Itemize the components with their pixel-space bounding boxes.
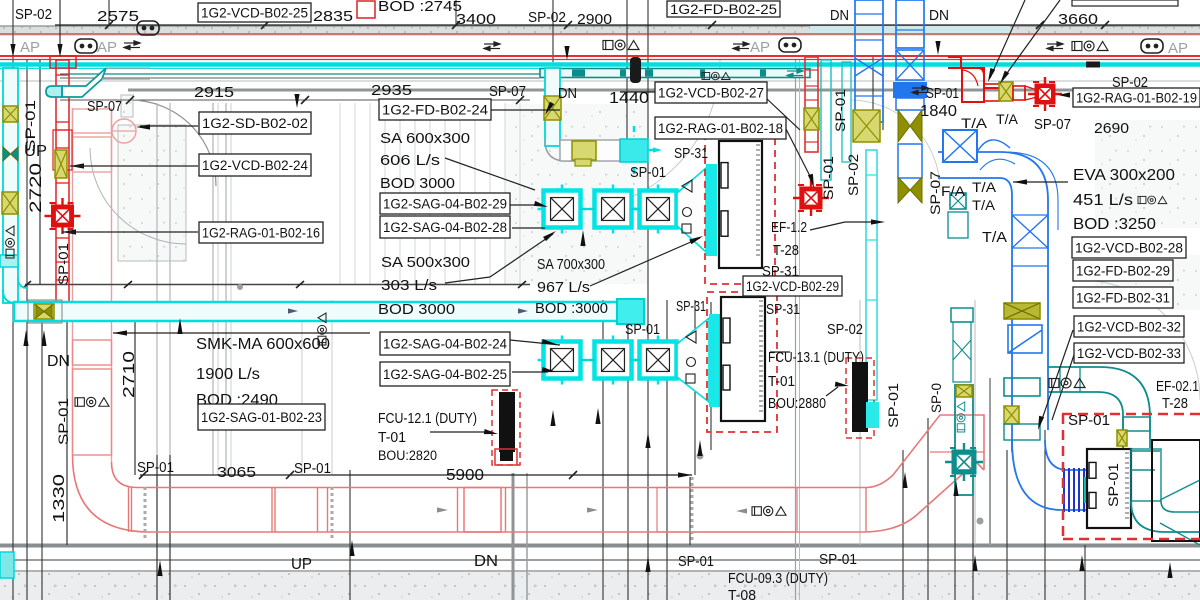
svg-text:451 L/s: 451 L/s — [1073, 192, 1133, 209]
svg-text:DN: DN — [47, 353, 70, 370]
svg-text:SP-01: SP-01 — [886, 383, 901, 428]
svg-text:T/A: T/A — [972, 198, 995, 213]
svg-text:SP-0: SP-0 — [929, 383, 944, 413]
svg-text:1330: 1330 — [51, 474, 68, 523]
svg-text:DN: DN — [929, 8, 949, 24]
svg-text:SP-01: SP-01 — [678, 553, 714, 570]
svg-text:DN: DN — [558, 86, 577, 102]
svg-text:SP-01: SP-01 — [819, 551, 857, 568]
svg-text:SP-01: SP-01 — [630, 165, 666, 181]
svg-text:T/A: T/A — [996, 112, 1018, 127]
svg-text:SA 700x300: SA 700x300 — [537, 257, 605, 273]
svg-text:T-08: T-08 — [728, 588, 756, 600]
svg-text:2835: 2835 — [313, 8, 353, 25]
svg-text:606 L/s: 606 L/s — [380, 153, 440, 169]
svg-text:SP-01: SP-01 — [294, 461, 331, 477]
svg-text:1G2-VCD-B02-32: 1G2-VCD-B02-32 — [1077, 319, 1181, 334]
svg-text:1G2-SAG-01-B02-23: 1G2-SAG-01-B02-23 — [201, 410, 322, 425]
svg-text:EVA 300x200: EVA 300x200 — [1073, 167, 1175, 184]
svg-text:SP-31: SP-31 — [766, 302, 800, 318]
svg-text:1G2-FD-B02-29: 1G2-FD-B02-29 — [1076, 263, 1170, 278]
svg-text:SA 500x300: SA 500x300 — [381, 255, 470, 271]
svg-text:1G2-VCD-B02-33: 1G2-VCD-B02-33 — [1077, 346, 1181, 361]
svg-text:2935: 2935 — [371, 82, 412, 99]
svg-text:FCU-12.1 (DUTY): FCU-12.1 (DUTY) — [378, 411, 477, 427]
svg-text:1G2-FD-B02-25: 1G2-FD-B02-25 — [670, 2, 777, 17]
svg-text:SP-07: SP-07 — [87, 99, 122, 115]
svg-text:SP-01: SP-01 — [56, 398, 71, 445]
svg-text:1G2-RAG-01-B02-16: 1G2-RAG-01-B02-16 — [202, 225, 320, 240]
svg-text:T-28: T-28 — [773, 243, 799, 259]
svg-text:1G2-FD-B02-24: 1G2-FD-B02-24 — [382, 102, 489, 117]
svg-text:SP-31: SP-31 — [676, 299, 706, 315]
svg-text:DN: DN — [474, 553, 498, 570]
svg-text:BOU:2820: BOU:2820 — [378, 448, 437, 463]
svg-text:EF-02.1: EF-02.1 — [1156, 379, 1199, 395]
svg-text:BOU:2880: BOU:2880 — [768, 396, 826, 412]
svg-text:2575: 2575 — [97, 8, 139, 25]
svg-text:1G2-SAG-04-B02-29: 1G2-SAG-04-B02-29 — [383, 196, 507, 211]
svg-text:SP-01: SP-01 — [23, 100, 38, 152]
svg-text:AP: AP — [1168, 40, 1188, 57]
svg-text:SP-01: SP-01 — [137, 460, 174, 476]
svg-text:DN: DN — [830, 8, 849, 24]
svg-text:AP: AP — [750, 39, 770, 56]
svg-text:T/A: T/A — [972, 180, 996, 195]
svg-text:1G2-VCD-B02-29: 1G2-VCD-B02-29 — [746, 279, 839, 294]
svg-text:FCU-13.1 (DUTY): FCU-13.1 (DUTY) — [768, 350, 864, 366]
svg-text:SP-01: SP-01 — [56, 243, 71, 285]
svg-text:1G2-SAG-04-B02-28: 1G2-SAG-04-B02-28 — [383, 220, 507, 235]
svg-text:1G2-VCD-B02-28: 1G2-VCD-B02-28 — [1075, 240, 1183, 255]
svg-text:BOD :3000: BOD :3000 — [535, 301, 608, 317]
svg-text:3660: 3660 — [1058, 11, 1098, 28]
svg-text:SP-01: SP-01 — [833, 89, 848, 132]
svg-text:1G2-SAG-04-B02-25: 1G2-SAG-04-B02-25 — [383, 367, 507, 382]
svg-text:SP-01: SP-01 — [821, 156, 836, 200]
svg-text:SP-02: SP-02 — [15, 7, 52, 23]
svg-text:F/A: F/A — [941, 184, 965, 199]
svg-text:3065: 3065 — [217, 464, 256, 481]
svg-text:AP: AP — [97, 39, 117, 56]
svg-text:SP-01: SP-01 — [926, 86, 959, 102]
svg-text:1840: 1840 — [920, 103, 957, 120]
svg-text:967 L/s: 967 L/s — [537, 280, 590, 296]
svg-text:FCU-09.3 (DUTY): FCU-09.3 (DUTY) — [728, 571, 828, 587]
svg-text:3400: 3400 — [456, 11, 496, 28]
svg-text:1G2-SAG-04-B02-24: 1G2-SAG-04-B02-24 — [383, 336, 507, 351]
svg-text:SP-31: SP-31 — [674, 146, 708, 162]
svg-text:BOD :2745: BOD :2745 — [378, 0, 462, 15]
svg-text:SP-02: SP-02 — [528, 10, 566, 26]
svg-text:AP: AP — [20, 39, 40, 56]
svg-text:BOD :3250: BOD :3250 — [1073, 216, 1156, 233]
svg-text:BOD 3000: BOD 3000 — [378, 302, 455, 318]
svg-text:UP: UP — [291, 556, 312, 573]
svg-text:1440: 1440 — [609, 90, 649, 107]
svg-text:2900: 2900 — [577, 11, 612, 28]
svg-text:1G2-VCD-B02-27: 1G2-VCD-B02-27 — [658, 85, 764, 100]
svg-text:2720: 2720 — [27, 163, 45, 213]
svg-text:2710: 2710 — [121, 351, 138, 398]
svg-text:303 L/s: 303 L/s — [381, 278, 437, 294]
svg-text:1G2-FD-B02-31: 1G2-FD-B02-31 — [1076, 290, 1170, 305]
svg-text:1G2-RAG-01-B02-18: 1G2-RAG-01-B02-18 — [658, 121, 783, 136]
svg-text:T-28: T-28 — [1162, 396, 1188, 412]
svg-text:SMK-MA 600x600: SMK-MA 600x600 — [196, 336, 330, 353]
svg-text:SP-02: SP-02 — [846, 154, 861, 196]
svg-text:T-01: T-01 — [768, 374, 795, 390]
svg-text:2915: 2915 — [194, 84, 234, 101]
svg-text:SP-01: SP-01 — [1105, 463, 1121, 507]
svg-text:SP-07: SP-07 — [1034, 117, 1071, 133]
svg-text:T-01: T-01 — [378, 430, 406, 446]
svg-text:SP-01: SP-01 — [625, 322, 660, 338]
svg-text:BOD 3000: BOD 3000 — [380, 176, 455, 192]
svg-text:2690: 2690 — [1094, 120, 1129, 137]
svg-text:SP-07: SP-07 — [489, 84, 526, 100]
svg-text:EF-1.2: EF-1.2 — [771, 220, 807, 236]
svg-text:T/A: T/A — [961, 116, 987, 131]
svg-text:SP-07: SP-07 — [928, 171, 943, 215]
svg-text:1G2-RAG-01-B02-19: 1G2-RAG-01-B02-19 — [1076, 90, 1197, 105]
svg-text:1G2-SD-B02-02: 1G2-SD-B02-02 — [202, 116, 308, 131]
svg-text:1900 L/s: 1900 L/s — [196, 366, 260, 383]
svg-text:1G2-VCD-B02-24: 1G2-VCD-B02-24 — [202, 158, 308, 173]
svg-text:SP-01: SP-01 — [1068, 412, 1110, 429]
svg-text:SA 600x300: SA 600x300 — [380, 131, 470, 147]
svg-text:T/A: T/A — [982, 230, 1007, 246]
svg-text:5900: 5900 — [446, 467, 484, 484]
svg-text:1G2-VCD-B02-25: 1G2-VCD-B02-25 — [201, 5, 308, 20]
svg-text:SP-02: SP-02 — [827, 321, 863, 338]
